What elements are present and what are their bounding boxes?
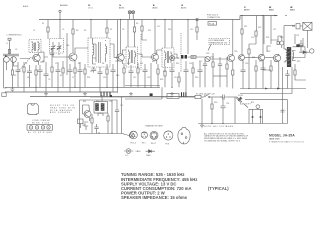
svg-text:C10: C10 — [103, 77, 106, 79]
resistor R37 — [2, 93, 6, 97]
tuning gang box dashed — [50, 39, 64, 54]
socket pin 1 — [252, 109, 254, 123]
svg-text:C12: C12 — [157, 26, 160, 28]
resistor R18 — [157, 64, 159, 87]
capacitor C10 — [98, 67, 103, 92]
AF amplifier enclosure box — [79, 97, 123, 134]
wire R22 down — [255, 36, 257, 44]
svg-text:R2: R2 — [25, 63, 27, 65]
diode D2 — [299, 51, 309, 54]
wire TR1 emitter — [35, 65, 37, 70]
wire output emitters join — [263, 64, 271, 71]
svg-text:R29: R29 — [297, 61, 300, 63]
lamp dial PL3 — [123, 133, 134, 138]
svg-text:TR 8: TR 8 — [165, 143, 169, 145]
diode D1 detector — [170, 56, 175, 61]
svg-text:TR7: TR7 — [267, 51, 270, 53]
svg-text:T1 OSCCOIL: T1 OSCCOIL — [88, 5, 94, 9]
capacitor C25 — [94, 124, 98, 134]
capacitor C23 — [220, 95, 227, 100]
resistor R2 — [11, 57, 13, 87]
resistor R38 — [8, 49, 10, 54]
capacitor C14 electrolytic — [150, 63, 153, 96]
svg-text:C9: C9 — [90, 71, 92, 73]
wire link TR7 bias — [267, 46, 271, 52]
svg-text:AERIAL: AERIAL — [60, 4, 69, 7]
resistor R29 — [294, 64, 306, 80]
resistor R13 — [191, 56, 196, 59]
wire link T4 out — [174, 54, 179, 58]
wire R8 down — [142, 31, 147, 40]
wire TR2 emitter — [74, 64, 76, 68]
socket pilot circle — [256, 105, 260, 110]
wire rail drop x120.5 — [120, 20, 122, 54]
wire drop x202 — [201, 99, 203, 124]
svg-text:R2: R2 — [14, 75, 16, 77]
wire R5 to T2 — [106, 33, 108, 38]
svg-text:R5: R5 — [84, 30, 86, 32]
node X junction on rail — [196, 18, 199, 21]
capacitor C21 — [261, 61, 266, 89]
wire gang link dashed — [18, 57, 32, 72]
svg-text:R15: R15 — [199, 61, 202, 63]
svg-text:R26: R26 — [252, 57, 255, 59]
svg-text:R9: R9 — [136, 23, 138, 25]
capacitor C29 electrolytic — [281, 110, 288, 112]
spec text block — [121, 172, 229, 200]
tone control box — [167, 94, 179, 99]
resistor R6 — [35, 70, 37, 92]
resistor R9 — [51, 62, 53, 87]
wire power feed rail — [90, 96, 167, 98]
svg-text:BT1: BT1 — [251, 102, 254, 104]
wire shield dashed x141 — [140, 34, 142, 70]
capacitor C12 — [129, 65, 134, 87]
transistor TR9 — [83, 108, 92, 121]
svg-text:R18: R18 — [160, 79, 163, 81]
svg-text:AND GREASE: AND GREASE — [50, 111, 71, 114]
connector pin 1 — [29, 126, 32, 129]
wire rail drop x128 — [127, 20, 129, 48]
svg-text:C17: C17 — [259, 61, 262, 63]
transistor TR2 — [68, 51, 77, 64]
capacitor C7 — [68, 64, 73, 92]
ground sym power — [200, 124, 204, 128]
connector strip outline — [27, 125, 53, 131]
svg-text:VOLTAGES AT NO SIGNAL, SUPPLY: VOLTAGES AT NO SIGNAL, SUPPLY 13 V — [204, 139, 241, 142]
capacitor C27 — [112, 100, 119, 134]
resistor R19 — [164, 66, 166, 87]
wire mid link — [125, 86, 162, 100]
transistor TR4 — [151, 54, 159, 65]
pinout TR5 — [141, 132, 147, 138]
resistor R11 — [196, 27, 198, 32]
svg-text:C13: C13 — [147, 77, 150, 79]
svg-text:C1: C1 — [33, 30, 35, 32]
thermistor TH1 — [278, 36, 284, 48]
interstage transformer box — [94, 102, 108, 114]
resistor R34 — [212, 57, 214, 87]
svg-text:R32: R32 — [96, 101, 99, 103]
wire audio signal line — [188, 56, 206, 58]
svg-text:C10: C10 — [115, 61, 118, 63]
svg-text:T2 1st IF455 kHz: T2 1st IF455 kHz — [119, 4, 124, 9]
resistor R22 — [255, 31, 257, 36]
svg-text:MODEL JH-35A: MODEL JH-35A — [269, 134, 295, 138]
loopstick L1 winding B — [11, 57, 17, 63]
resistor R1 — [47, 27, 49, 32]
wire feedback vertical — [282, 67, 284, 124]
resistor R27 — [255, 60, 257, 89]
svg-text:R8: R8 — [102, 63, 104, 65]
capacitor C15 electrolytic — [181, 55, 183, 59]
svg-text:C16: C16 — [245, 63, 248, 65]
pinout TR6 TR7 — [150, 131, 158, 139]
svg-text:C24: C24 — [226, 103, 229, 105]
capacitor C17 — [170, 63, 175, 87]
node dark junction — [110, 95, 112, 97]
IF transformer T3 — [126, 47, 138, 67]
capacitor C24 — [221, 97, 226, 124]
wire TR5 collector to rail — [232, 20, 234, 55]
wire switch to cap — [210, 96, 222, 98]
wire link TR4 collector — [157, 50, 162, 54]
svg-text:MANUAL TUNING: MANUAL TUNING — [269, 138, 280, 141]
resistor R30 — [211, 97, 213, 124]
supply rail B+ right section — [240, 16, 278, 20]
resistor R31 — [78, 119, 83, 128]
svg-text:R9: R9 — [60, 75, 62, 77]
capacitor C16 electrolytic — [185, 55, 187, 59]
resistor R32 — [91, 114, 93, 134]
IF transformer T2 — [88, 38, 110, 67]
speaker LS1 — [300, 22, 312, 30]
svg-text:C3: C3 — [15, 49, 17, 51]
wire speaker feed — [284, 26, 292, 49]
diode D1 pictorial — [124, 149, 133, 154]
capacitor C2 — [16, 62, 21, 87]
capacitor C8 — [78, 62, 83, 92]
resistor R15 — [106, 64, 108, 87]
wire TA feed — [98, 95, 103, 116]
loopstick L1 bars — [3, 54, 19, 56]
capacitor C18 — [184, 61, 189, 97]
wire link TR3 collector — [122, 50, 126, 54]
svg-text:R31: R31 — [83, 101, 86, 103]
capacitor C34 electrolytic — [296, 44, 299, 47]
resistor R35 — [226, 57, 228, 87]
capacitor C4 — [38, 65, 43, 87]
resistor R20 — [178, 72, 180, 87]
capacitor C19 — [198, 62, 203, 87]
pinout TR1-4 — [130, 131, 138, 139]
svg-text:T5 DRIVERTRANS: T5 DRIVERTRANS — [269, 7, 275, 11]
heatsink outline drawing — [27, 104, 38, 115]
transistor TR7 — [258, 54, 264, 64]
capacitor C31 — [203, 59, 207, 87]
connector pin 2 — [35, 126, 38, 129]
svg-text:C12: C12 — [133, 77, 136, 79]
resistor R7 — [133, 27, 135, 32]
resistor R25 — [192, 62, 194, 87]
wire lower bus 2 right — [240, 67, 292, 94]
wire R7 down — [134, 32, 136, 47]
component value labels sprinkle — [6, 23, 300, 127]
wire link TR2 collector — [75, 48, 88, 51]
wire driver mid link — [213, 75, 227, 77]
node arrow right bus 2 — [277, 88, 280, 90]
ground sym 5 — [170, 92, 174, 96]
svg-text:C21: C21 — [273, 29, 276, 31]
wire cap to plug — [227, 96, 237, 98]
wire TR7 to TR8 — [265, 57, 274, 59]
svg-text:SPEAKER IMPEDANCE: 15 ohms: SPEAKER IMPEDANCE: 15 ohms — [121, 195, 188, 200]
connector pins P2 — [182, 92, 186, 96]
capacitor C13 — [143, 64, 148, 87]
transformer TA core B — [101, 103, 105, 111]
fuse holder label box — [208, 22, 217, 26]
ground sym 3 — [83, 92, 87, 96]
transistor TR6 — [239, 54, 245, 63]
svg-text:C13: C13 — [163, 71, 166, 73]
wire aerial down-lead — [59, 12, 61, 38]
svg-text:R30: R30 — [214, 102, 217, 104]
resistor R24 — [277, 41, 279, 44]
capacitor C9 — [91, 67, 96, 73]
resistor R5 — [106, 28, 108, 33]
supply rail B+ left section — [39, 19, 240, 21]
wire plug to battery — [244, 104, 248, 108]
wire chassis left — [4, 58, 7, 88]
svg-text:R6: R6 — [78, 63, 80, 65]
wire rail drop x303 — [302, 38, 304, 46]
capacitor C22 — [299, 40, 304, 52]
svg-text:TR 1-4: TR 1-4 — [130, 142, 136, 144]
jack J1 — [309, 49, 314, 53]
svg-text:+: + — [285, 110, 287, 112]
svg-text:C5: C5 — [55, 63, 57, 65]
wire rail drop x256 — [248, 43, 250, 45]
ground rail lower3 — [30, 96, 195, 98]
wire rail drop x155 — [154, 20, 156, 54]
wire rail drop x48 — [47, 20, 49, 28]
pinout TR9 TO-3 — [178, 127, 190, 144]
node arrow right bus 1 — [265, 88, 268, 90]
svg-text:R14: R14 — [168, 29, 171, 31]
wire TR5 emitter leg — [232, 64, 234, 70]
svg-text:1N60: 1N60 — [146, 155, 151, 157]
svg-text:C22: C22 — [296, 35, 299, 37]
wire rail drop x188 — [187, 20, 189, 55]
svg-text:D 1: D 1 — [126, 155, 129, 157]
svg-text:C14: C14 — [189, 63, 192, 65]
svg-text:L1 FERRITE ROD: L1 FERRITE ROD — [7, 34, 23, 36]
capacitor C33 — [285, 70, 289, 89]
svg-text:R16: R16 — [116, 75, 119, 77]
ground sym 4 — [129, 92, 133, 96]
capacitor C11 — [111, 64, 116, 92]
svg-text:C20: C20 — [251, 37, 254, 39]
wire rail drop x134.5 — [134, 20, 136, 28]
wire rail drop x142 — [141, 20, 143, 27]
fuse F1 — [195, 95, 201, 98]
wire output network loop — [292, 47, 305, 58]
svg-text:AER.: AER. — [23, 5, 29, 8]
svg-text:TR9: TR9 — [82, 125, 85, 127]
node rail2 end arrow — [275, 15, 278, 17]
wire rail drop x271 — [264, 16, 271, 45]
wire rail drop x249 — [255, 16, 257, 32]
connector pins P3 — [101, 92, 110, 96]
svg-text:R21: R21 — [244, 26, 247, 28]
callout note box dashed — [208, 39, 230, 51]
wire TR8 emitter — [278, 64, 280, 89]
resistor R33 — [107, 113, 109, 134]
wire power ground rail — [198, 123, 288, 125]
wire rail drop x172 — [171, 20, 173, 49]
svg-text:8 TRANSISTOR RADIO 13 VOLTS: 8 TRANSISTOR RADIO 13 VOLTS DC — [269, 140, 305, 143]
connector pin 3 — [41, 126, 44, 129]
wire AGC vertical — [116, 20, 118, 93]
svg-text:TR10: TR10 — [98, 113, 102, 115]
svg-text:T3 2nd IF455 kHz: T3 2nd IF455 kHz — [153, 5, 158, 9]
lamp PL1 — [128, 11, 131, 20]
lamp PL2 — [132, 11, 135, 20]
resistor R36 — [232, 70, 234, 89]
svg-text:FOR 12-14 VCONNECTION: FOR 12-14 VCONNECTION — [207, 15, 220, 19]
output transformer T6 windings — [284, 49, 296, 62]
svg-text:TR5: TR5 — [234, 51, 237, 53]
wire rail drop x295 — [294, 34, 296, 44]
resistor R12 — [74, 68, 76, 87]
svg-text:R14: R14 — [87, 77, 90, 79]
resistor R3 — [72, 29, 74, 34]
resistor R26 — [248, 44, 250, 89]
wire rail drop x91 — [90, 20, 92, 39]
resistor R4 — [23, 62, 25, 92]
ground rail lower2 — [5, 91, 117, 93]
battery socket outline — [249, 109, 263, 123]
svg-text:R24: R24 — [280, 37, 283, 39]
svg-text:FS 1A: FS 1A — [209, 22, 215, 25]
variable capacitor C1a — [51, 42, 56, 52]
node AER terminal — [59, 10, 61, 12]
ground sym 2 — [44, 92, 48, 96]
capacitor C32 — [218, 57, 222, 87]
resistor R10 — [62, 61, 64, 87]
svg-text:TR 5: TR 5 — [142, 142, 146, 144]
resistor R28 — [270, 60, 272, 89]
connector P1 — [296, 24, 300, 29]
svg-text:F1: F1 — [204, 95, 206, 97]
wire R1 to T1 — [47, 32, 49, 39]
wire R3 to TR2 — [72, 34, 74, 53]
svg-text:TR5DRIVER: TR5DRIVER — [244, 7, 250, 11]
svg-text:R10: R10 — [127, 63, 130, 65]
capacitor C20 — [241, 62, 246, 89]
wire rail drop x263 — [262, 16, 264, 55]
transistor TR5 — [228, 54, 235, 64]
wire power loop right — [245, 100, 288, 124]
svg-text:R7: R7 — [110, 29, 112, 31]
socket pin 2 — [260, 109, 262, 123]
transistor TR8 — [273, 54, 280, 64]
capacitor C6 — [56, 62, 61, 92]
svg-text:TR 6,7: TR 6,7 — [151, 143, 157, 145]
svg-text:L1: L1 — [6, 43, 8, 45]
connector plug arrow — [236, 97, 242, 103]
wire right ground bus — [240, 88, 306, 90]
svg-text:C2: C2 — [62, 29, 64, 31]
wire rail drop x107 — [106, 20, 108, 29]
wire link T2 out — [110, 44, 117, 58]
wire link osc feedback — [40, 52, 48, 62]
svg-text:TRANSISTOR VIEW: TRANSISTOR VIEW — [145, 124, 163, 127]
svg-text:R28: R28 — [274, 61, 277, 63]
output transformer T6 core — [287, 47, 291, 67]
svg-text:R4: R4 — [42, 61, 44, 63]
wire speaker return — [307, 30, 309, 48]
svg-text:R23: R23 — [266, 37, 269, 39]
wire link D1 out — [175, 57, 185, 58]
ground sym 1 — [10, 87, 14, 91]
potentiometer VR1 volume — [205, 56, 212, 61]
svg-text:C5: C5 — [48, 79, 50, 81]
svg-text:T4 3rd IF455 kHz: T4 3rd IF455 kHz — [181, 5, 186, 9]
resistor R17 — [137, 63, 139, 87]
IF transformer T4 — [162, 48, 174, 68]
wire drop x235 — [234, 97, 236, 124]
wire fuse to switch — [201, 96, 204, 98]
svg-text:VR1: VR1 — [206, 53, 210, 55]
wire rail drop x165 — [164, 20, 166, 49]
capacitor C3 — [27, 65, 32, 87]
wire R11 down — [196, 32, 198, 40]
wire TR9 base net — [83, 105, 90, 114]
wire link T3 out — [138, 54, 152, 57]
svg-text:R13: R13 — [176, 63, 179, 65]
transformer TA core A — [95, 103, 99, 111]
svg-text:R3: R3 — [76, 30, 78, 32]
svg-text:C17: C17 — [174, 77, 177, 79]
svg-text:TONE: TONE — [168, 96, 174, 98]
wire link TR2 base — [53, 33, 69, 75]
ground rail lower1 — [5, 86, 160, 88]
svg-text:R25: R25 — [195, 77, 198, 79]
svg-text:NOTE: ALL VOLTAGES: NOTE: ALL VOLTAGES — [204, 125, 234, 128]
capacitor C28 — [84, 122, 88, 130]
pinout TR8 — [164, 131, 173, 140]
svg-text:R11: R11 — [148, 30, 151, 32]
svg-text:R12: R12 — [152, 61, 155, 63]
svg-text:C27: C27 — [120, 105, 123, 107]
svg-text:R1: R1 — [42, 23, 44, 25]
resistor R14 — [84, 64, 86, 87]
svg-text:R22: R22 — [258, 27, 261, 29]
capacitor C30 — [50, 48, 54, 62]
svg-text:WIRE SIDE: WIRE SIDE — [32, 122, 50, 124]
wire link driver bias — [249, 40, 278, 44]
svg-text:C25: C25 — [109, 101, 112, 103]
svg-text:T6 OUTPUTTRANS: T6 OUTPUTTRANS — [290, 7, 296, 11]
wire shield dashed x181 — [180, 33, 182, 72]
wire pot to driver — [210, 53, 228, 59]
variable capacitor C1b — [57, 42, 62, 52]
capacitor C5 — [44, 62, 49, 92]
svg-text:C15: C15 — [190, 29, 193, 31]
oscillator coil T1 — [29, 40, 41, 53]
resistor R21 — [241, 29, 243, 34]
